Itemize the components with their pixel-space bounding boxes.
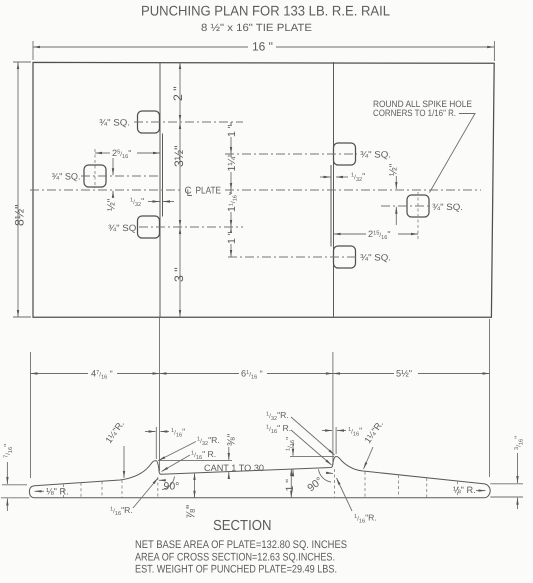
dim 7/16" left tip thickness: [6, 462, 8, 484]
90 deg left: [157, 477, 159, 499]
svg-text:¾" SQ.: ¾" SQ.: [360, 150, 391, 160]
dim chain x=231: 1": [230, 227, 232, 257]
svg-text:PUNCHING PLAN FOR 133 LB. R.E.: PUNCHING PLAN FOR 133 LB. R.E. RAIL: [141, 3, 390, 19]
svg-text:⅞": ⅞": [184, 505, 198, 519]
svg-text:1 ": 1 ": [226, 124, 238, 137]
dim 1" seat to bottom: [290, 469, 292, 498]
svg-text:8½": 8½": [13, 205, 27, 226]
hole RF free (3/4" sq): [407, 195, 429, 217]
dim chain x=231: 1": [230, 122, 232, 154]
extension line left shoulder peak: [155, 427, 157, 459]
hole BR (3/4" sq): [334, 246, 356, 268]
dim 7/16" right tip thickness: [517, 453, 519, 483]
svg-text:PLATE: PLATE: [196, 186, 222, 197]
extension line left edge: [30, 352, 32, 478]
right rail-base edge line: [333, 62, 335, 317]
dim chain x=231: 1 1/4": [230, 154, 232, 190]
section profile outline: [29, 456, 490, 497]
svg-text:¾" SQ.: ¾" SQ.: [108, 223, 139, 233]
svg-text:½": ½": [106, 198, 118, 211]
dim 5 1/2": [333, 373, 394, 375]
extension line left rail base edge (from plan to shoulder): [159, 318, 161, 471]
svg-text:90°: 90°: [164, 481, 180, 493]
svg-text:1 ": 1 ": [284, 479, 296, 492]
dim 1/2" (x=395, plate cl to RF hole cl): [395, 176, 397, 189]
dim 3" (x=180, BL hole cl to bottom edge): [179, 227, 181, 317]
svg-text:1¼": 1¼": [226, 153, 238, 172]
hole LF free (3/4" sq): [84, 165, 106, 187]
shoulder top extension right + dim 1/16": [290, 455, 334, 457]
hole BL centerline: [139, 226, 243, 228]
extension line right edge (from plan to tip): [489, 319, 491, 477]
plate centerline: [30, 189, 182, 191]
dim 6 1/16": [160, 373, 240, 375]
svg-text:5½": 5½": [396, 369, 412, 379]
90 deg right: [334, 469, 336, 499]
16" dimension line: [33, 46, 248, 48]
hole TR centerline: [225, 153, 357, 155]
svg-text:¾" SQ.: ¾" SQ.: [360, 253, 391, 263]
svg-text:2 ": 2 ": [171, 86, 185, 101]
svg-text:1 ": 1 ": [226, 231, 238, 244]
svg-text:EST. WEIGHT OF PUNCHED PLATE=2: EST. WEIGHT OF PUNCHED PLATE=29.49 LBS.: [135, 564, 337, 576]
svg-text:¾" SQ.: ¾" SQ.: [52, 172, 81, 182]
hole BL (3/4" sq): [138, 216, 160, 238]
8 1/2" dimension: extension lines: [13, 61, 31, 63]
svg-text:½": ½": [388, 163, 400, 176]
note leader: [430, 114, 476, 193]
dim 1/16" left shoulder offset: [145, 431, 156, 433]
hole LF centerline: [81, 175, 160, 177]
left punching offset line: [162, 134, 164, 217]
right punching offset line: [330, 165, 332, 247]
dim 4 7/16": [31, 373, 89, 375]
hole TL (3/4" sq): [138, 111, 160, 133]
svg-text:3 ": 3 ": [172, 267, 186, 282]
hole RF centerline: [381, 205, 430, 207]
extension line right rail base edge: [332, 352, 334, 465]
8 1/2" dimension line: [17, 62, 19, 317]
svg-text:AREA OF CROSS SECTION=12.63 SQ: AREA OF CROSS SECTION=12.63 SQ.INCHES.: [135, 552, 335, 564]
dim 2" (x=180, top edge to TL hole cl): [179, 62, 181, 122]
svg-text:CORNERS TO 1/16" R.: CORNERS TO 1/16" R.: [373, 108, 456, 118]
hidden bend lines left ramp: [63, 484, 65, 498]
svg-text:3½": 3½": [172, 146, 186, 167]
svg-text:8 ½" x 16" TIE PLATE: 8 ½" x 16" TIE PLATE: [201, 22, 312, 34]
bottom line extension left: [1, 497, 29, 499]
hole BR centerline: [228, 256, 357, 258]
dim 1/2" (x=113, LF hole cl to plate cl): [112, 158, 114, 175]
svg-text:SECTION: SECTION: [213, 518, 272, 534]
top tip extension left: [2, 484, 27, 486]
hole RF vertical centerline: [417, 192, 419, 240]
dim 7/8" seat to bottom: [194, 473, 196, 498]
left rail-base edge line: [159, 62, 161, 317]
svg-text:¾" SQ.: ¾" SQ.: [99, 118, 130, 128]
bottom line extension right: [490, 496, 523, 498]
dim chain x=231: 1 1/16": [230, 190, 232, 227]
dim 1/16" right shoulder offset: [322, 430, 332, 432]
svg-text:16 ": 16 ": [252, 40, 273, 54]
shoulder top extension left + dim 3/8": [158, 460, 232, 462]
dim 2 15/16" (rail edge to RF hole): [334, 233, 367, 235]
plate outline: [33, 62, 494, 317]
svg-text:⅛" R.: ⅛" R.: [46, 487, 69, 497]
svg-text:⅜": ⅜": [226, 433, 238, 446]
dim 2 5/16" (left free hole to rail edge): [95, 152, 110, 154]
svg-text:NET BASE AREA OF PLATE=132.80: NET BASE AREA OF PLATE=132.80 SQ. INCHES: [135, 539, 347, 551]
dim 3 1/2" (x=180, TL hole cl to BL hole cl): [179, 122, 181, 227]
hole TL centerline: [134, 121, 243, 123]
svg-text:¾" SQ.: ¾" SQ.: [432, 202, 463, 212]
16" dimension: extension lines: [32, 41, 34, 60]
hidden bend lines right ramp: [364, 472, 366, 498]
hole LF vertical centerline: [94, 149, 96, 188]
extension line right shoulder peak: [335, 427, 337, 454]
svg-text:CANT 1 TO 30: CANT 1 TO 30: [204, 463, 264, 473]
svg-text:⅛" R.: ⅛" R.: [453, 485, 476, 495]
hole TR (3/4" sq): [334, 143, 356, 165]
top tip extension right: [490, 483, 523, 485]
